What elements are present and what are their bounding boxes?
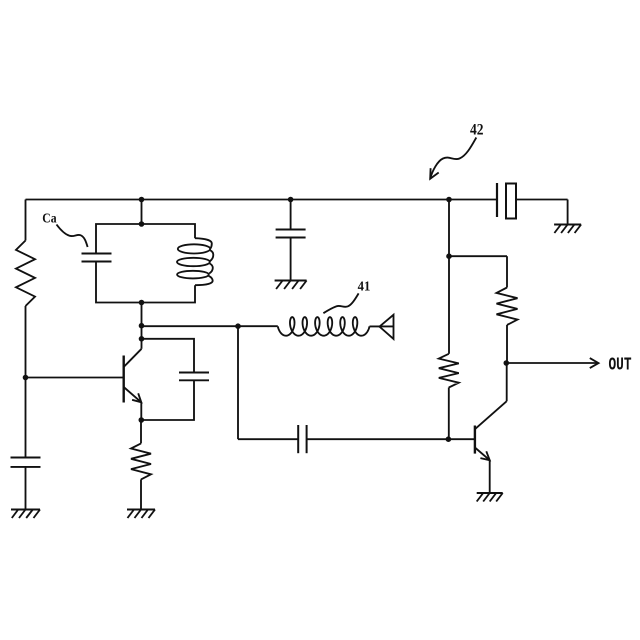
svg-text:41: 41	[358, 278, 371, 293]
svg-text:OUT: OUT	[609, 355, 632, 375]
svg-text:Ca: Ca	[42, 212, 56, 227]
svg-text:42: 42	[470, 121, 484, 138]
